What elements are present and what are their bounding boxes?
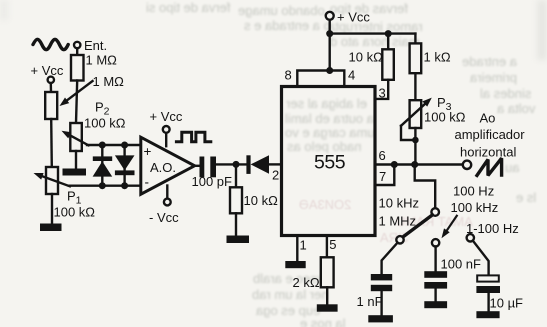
label 10 kHz: [379, 196, 419, 211]
wire contact2 to C3: [434, 247, 436, 272]
terminal Ent.: [74, 42, 80, 48]
diode D1 (up): [93, 156, 113, 176]
label 1 Mohm (R1): [86, 53, 118, 68]
wire diode branch left: [101, 145, 103, 186]
capacitor C2 1 nF: [371, 274, 392, 291]
svg-text:6: 6: [379, 148, 386, 163]
label 1 MHz: [379, 214, 417, 229]
svg-text:1 MHz: 1 MHz: [379, 214, 417, 229]
wire Vcc down to pin8-4: [329, 20, 331, 71]
label pin 8: [285, 68, 292, 83]
svg-text:1 MΩ: 1 MΩ: [86, 53, 118, 68]
label Ent.: [84, 38, 107, 53]
label pin 3: [379, 86, 386, 101]
svg-text:Ent.: Ent.: [84, 38, 107, 53]
wire junction to R3: [235, 164, 237, 187]
svg-text:2 kΩ: 2 kΩ: [293, 275, 320, 290]
wire diode branch right: [123, 145, 125, 186]
svg-text:- Vcc: - Vcc: [149, 210, 179, 225]
wire R2 to P1: [50, 119, 53, 167]
label 100 kohm (P2): [84, 116, 126, 131]
terminal +Vcc 555: [326, 12, 334, 20]
switch contact 2: [432, 239, 439, 246]
svg-text:2: 2: [272, 168, 279, 183]
label + Vcc (left): [31, 63, 64, 78]
svg-text:+ Vcc: + Vcc: [150, 109, 183, 124]
wire R1 to P2 top: [76, 81, 77, 124]
potentiometer P2 100k: [62, 123, 89, 151]
label 100 kohm (P1): [54, 205, 96, 220]
svg-text:+ Vcc: + Vcc: [31, 63, 64, 78]
svg-text:10 kΩ: 10 kΩ: [349, 50, 384, 65]
label 1 kohm (R5): [424, 50, 451, 65]
wire R5 to P3: [414, 73, 416, 100]
node dots pin6 line: [391, 161, 418, 168]
svg-text:1 nF: 1 nF: [357, 294, 383, 309]
label 1 Mohm (R2) with pointer arrow: [60, 74, 125, 106]
wire op-amp output: [195, 165, 200, 167]
label op-amp - input: [145, 175, 150, 190]
svg-text:A.O.: A.O.: [150, 160, 176, 175]
svg-text:100 kΩ: 100 kΩ: [424, 110, 466, 125]
label amplificador: [455, 127, 526, 142]
label P1: [67, 189, 82, 207]
resistor R3 10k: [230, 187, 242, 213]
terminal +Vcc left: [48, 77, 54, 83]
resistor R1 1 Mohm (input): [71, 55, 84, 81]
wire R4 to pin 3: [375, 80, 388, 99]
label 100 nF: [441, 257, 482, 272]
switch lever: [403, 215, 432, 237]
svg-text:amplificador: amplificador: [455, 127, 526, 142]
svg-text:100 kΩ: 100 kΩ: [84, 116, 126, 131]
svg-text:1 MΩ: 1 MΩ: [93, 74, 125, 89]
ground (R6): [317, 304, 338, 311]
wire pin 7: [375, 165, 394, 186]
svg-text:10 kΩ: 10 kΩ: [244, 193, 279, 208]
svg-text:555: 555: [314, 152, 346, 174]
label 10 kohm (R3): [244, 193, 279, 208]
potentiometer P1 100k: [34, 167, 70, 194]
label 1 nF: [357, 294, 383, 309]
label + Vcc (op-amp): [150, 109, 183, 124]
label pin 6: [379, 148, 386, 163]
wire P2 to ground: [75, 151, 77, 169]
wire contact1 to C2: [382, 243, 398, 274]
switch pole terminal: [431, 208, 439, 216]
svg-text:1: 1: [300, 238, 307, 253]
square wave symbol: [176, 132, 210, 142]
svg-text:Ao: Ao: [480, 111, 496, 126]
wire P2 wiper to op-amp + input: [87, 144, 141, 146]
wire rail to R5: [414, 34, 416, 44]
wire pin8-pin4: [297, 71, 344, 87]
wire contact3 to C4: [473, 241, 489, 276]
wire -Vcc op-amp: [166, 186, 168, 199]
diode D3 (points left): [246, 155, 269, 174]
label 1-100 Hz: [466, 221, 519, 236]
label pin 5: [329, 237, 336, 252]
ground (C4): [476, 311, 499, 318]
svg-text:1-100 Hz: 1-100 Hz: [466, 221, 519, 236]
node dot Vcc rail: [326, 30, 333, 37]
svg-text:100 Hz: 100 Hz: [453, 184, 494, 199]
ground (R3): [227, 236, 250, 244]
svg-text:-: -: [145, 175, 150, 190]
svg-text:100 nF: 100 nF: [441, 257, 482, 272]
ground (C2): [368, 315, 393, 322]
wire R6 to ground: [326, 287, 328, 304]
output terminal: [463, 161, 471, 169]
ground (P2): [63, 169, 87, 176]
wire D3 to pin 2: [269, 163, 281, 165]
svg-text:100 kHz: 100 kHz: [451, 200, 499, 215]
label - Vcc (op-amp): [149, 210, 179, 225]
wire P1 to ground: [51, 194, 53, 224]
label P2: [95, 100, 110, 118]
wire C4 to ground: [487, 293, 489, 311]
svg-text:8: 8: [285, 68, 292, 83]
label 10 uF: [490, 296, 524, 311]
resistor R4 10k: [382, 49, 394, 80]
resistor R2 1 Mohm (from +Vcc): [45, 92, 57, 119]
wire C2 to ground: [380, 291, 382, 315]
ground (P1): [40, 224, 62, 232]
ground (pin 1): [285, 261, 305, 268]
svg-text:10 kHz: 10 kHz: [379, 196, 419, 211]
label A.O.: [150, 160, 176, 175]
label 100 kohm (P3): [424, 110, 466, 125]
svg-text:100 pF: 100 pF: [192, 174, 233, 189]
diode D2 (down): [115, 155, 135, 175]
label pin 4: [348, 68, 355, 83]
bleed-through verso text (decorative): [146, 0, 231, 15]
capacitor C1 100 pF: [200, 157, 217, 178]
arrow to contact 2: [442, 216, 457, 238]
wire P3 to pin6 line: [414, 128, 416, 165]
label + Vcc (555): [337, 10, 370, 25]
svg-text:+: +: [144, 144, 152, 159]
label pin 7: [379, 169, 386, 184]
node dot on pin8-4 wire: [326, 67, 333, 74]
switch contact 1: [396, 236, 403, 243]
label 100 kHz: [451, 200, 499, 215]
label op-amp + input: [144, 144, 152, 159]
label Ao: [480, 111, 496, 126]
wire P1 wiper to op-amp - input: [69, 184, 141, 186]
potentiometer P3 100k: [401, 98, 432, 140]
wire Vcc to R2: [50, 83, 53, 92]
label 100 Hz: [453, 184, 494, 199]
label 10 kohm (R4): [349, 50, 384, 65]
node junction dots diode left: [99, 142, 106, 190]
terminal +Vcc op-amp: [163, 126, 170, 133]
label pin 2: [272, 168, 279, 183]
label 100 pF: [192, 174, 233, 189]
ground (C3): [424, 301, 447, 308]
label pin 1: [300, 238, 307, 253]
switch contact 3: [467, 234, 474, 241]
resistor R6 2k: [321, 257, 334, 287]
wire R3 to ground: [235, 213, 237, 235]
svg-text:+ Vcc: + Vcc: [337, 10, 370, 25]
svg-text:3: 3: [379, 86, 386, 101]
svg-text:horizontal: horizontal: [460, 145, 516, 160]
svg-text:5: 5: [329, 237, 336, 252]
wire Ent to R1: [76, 48, 78, 55]
node dot R4 branch: [385, 30, 392, 37]
resistor R5 1k: [410, 43, 422, 73]
IC 555: [282, 87, 376, 236]
label 2 kohm (R6): [293, 275, 320, 290]
wire C1 to diode D3: [216, 163, 246, 165]
wire pin 6 line: [375, 163, 463, 165]
svg-text:7: 7: [379, 169, 386, 184]
terminal -Vcc op-amp: [164, 199, 171, 206]
svg-text:10 µF: 10 µF: [490, 296, 524, 311]
input sine wave symbol: [33, 39, 68, 49]
wire Vcc rail: [330, 32, 416, 34]
svg-text:100 kΩ: 100 kΩ: [54, 205, 96, 220]
svg-text:4: 4: [348, 68, 355, 83]
capacitor C3 100 nF: [424, 271, 447, 288]
sawtooth symbol: [476, 158, 502, 177]
wire pin 1 to ground: [296, 236, 298, 262]
label P3: [437, 95, 452, 113]
label horizontal: [460, 145, 516, 160]
wire pin 5 to R6: [326, 236, 328, 258]
node junction after C1: [233, 161, 240, 168]
op-amp U1 A.O.: [141, 137, 195, 194]
capacitor C4 10 uF electrolytic: [476, 275, 500, 293]
label 555: [314, 152, 346, 174]
wire rail to R4: [387, 34, 389, 50]
node dot P3 wiper tie: [412, 137, 419, 144]
svg-text:1 kΩ: 1 kΩ: [424, 50, 451, 65]
node junction dots diode right: [121, 142, 128, 190]
wire C3 to ground: [434, 289, 436, 302]
wire +Vcc op-amp: [165, 133, 167, 146]
wire to switch pole: [415, 165, 436, 209]
